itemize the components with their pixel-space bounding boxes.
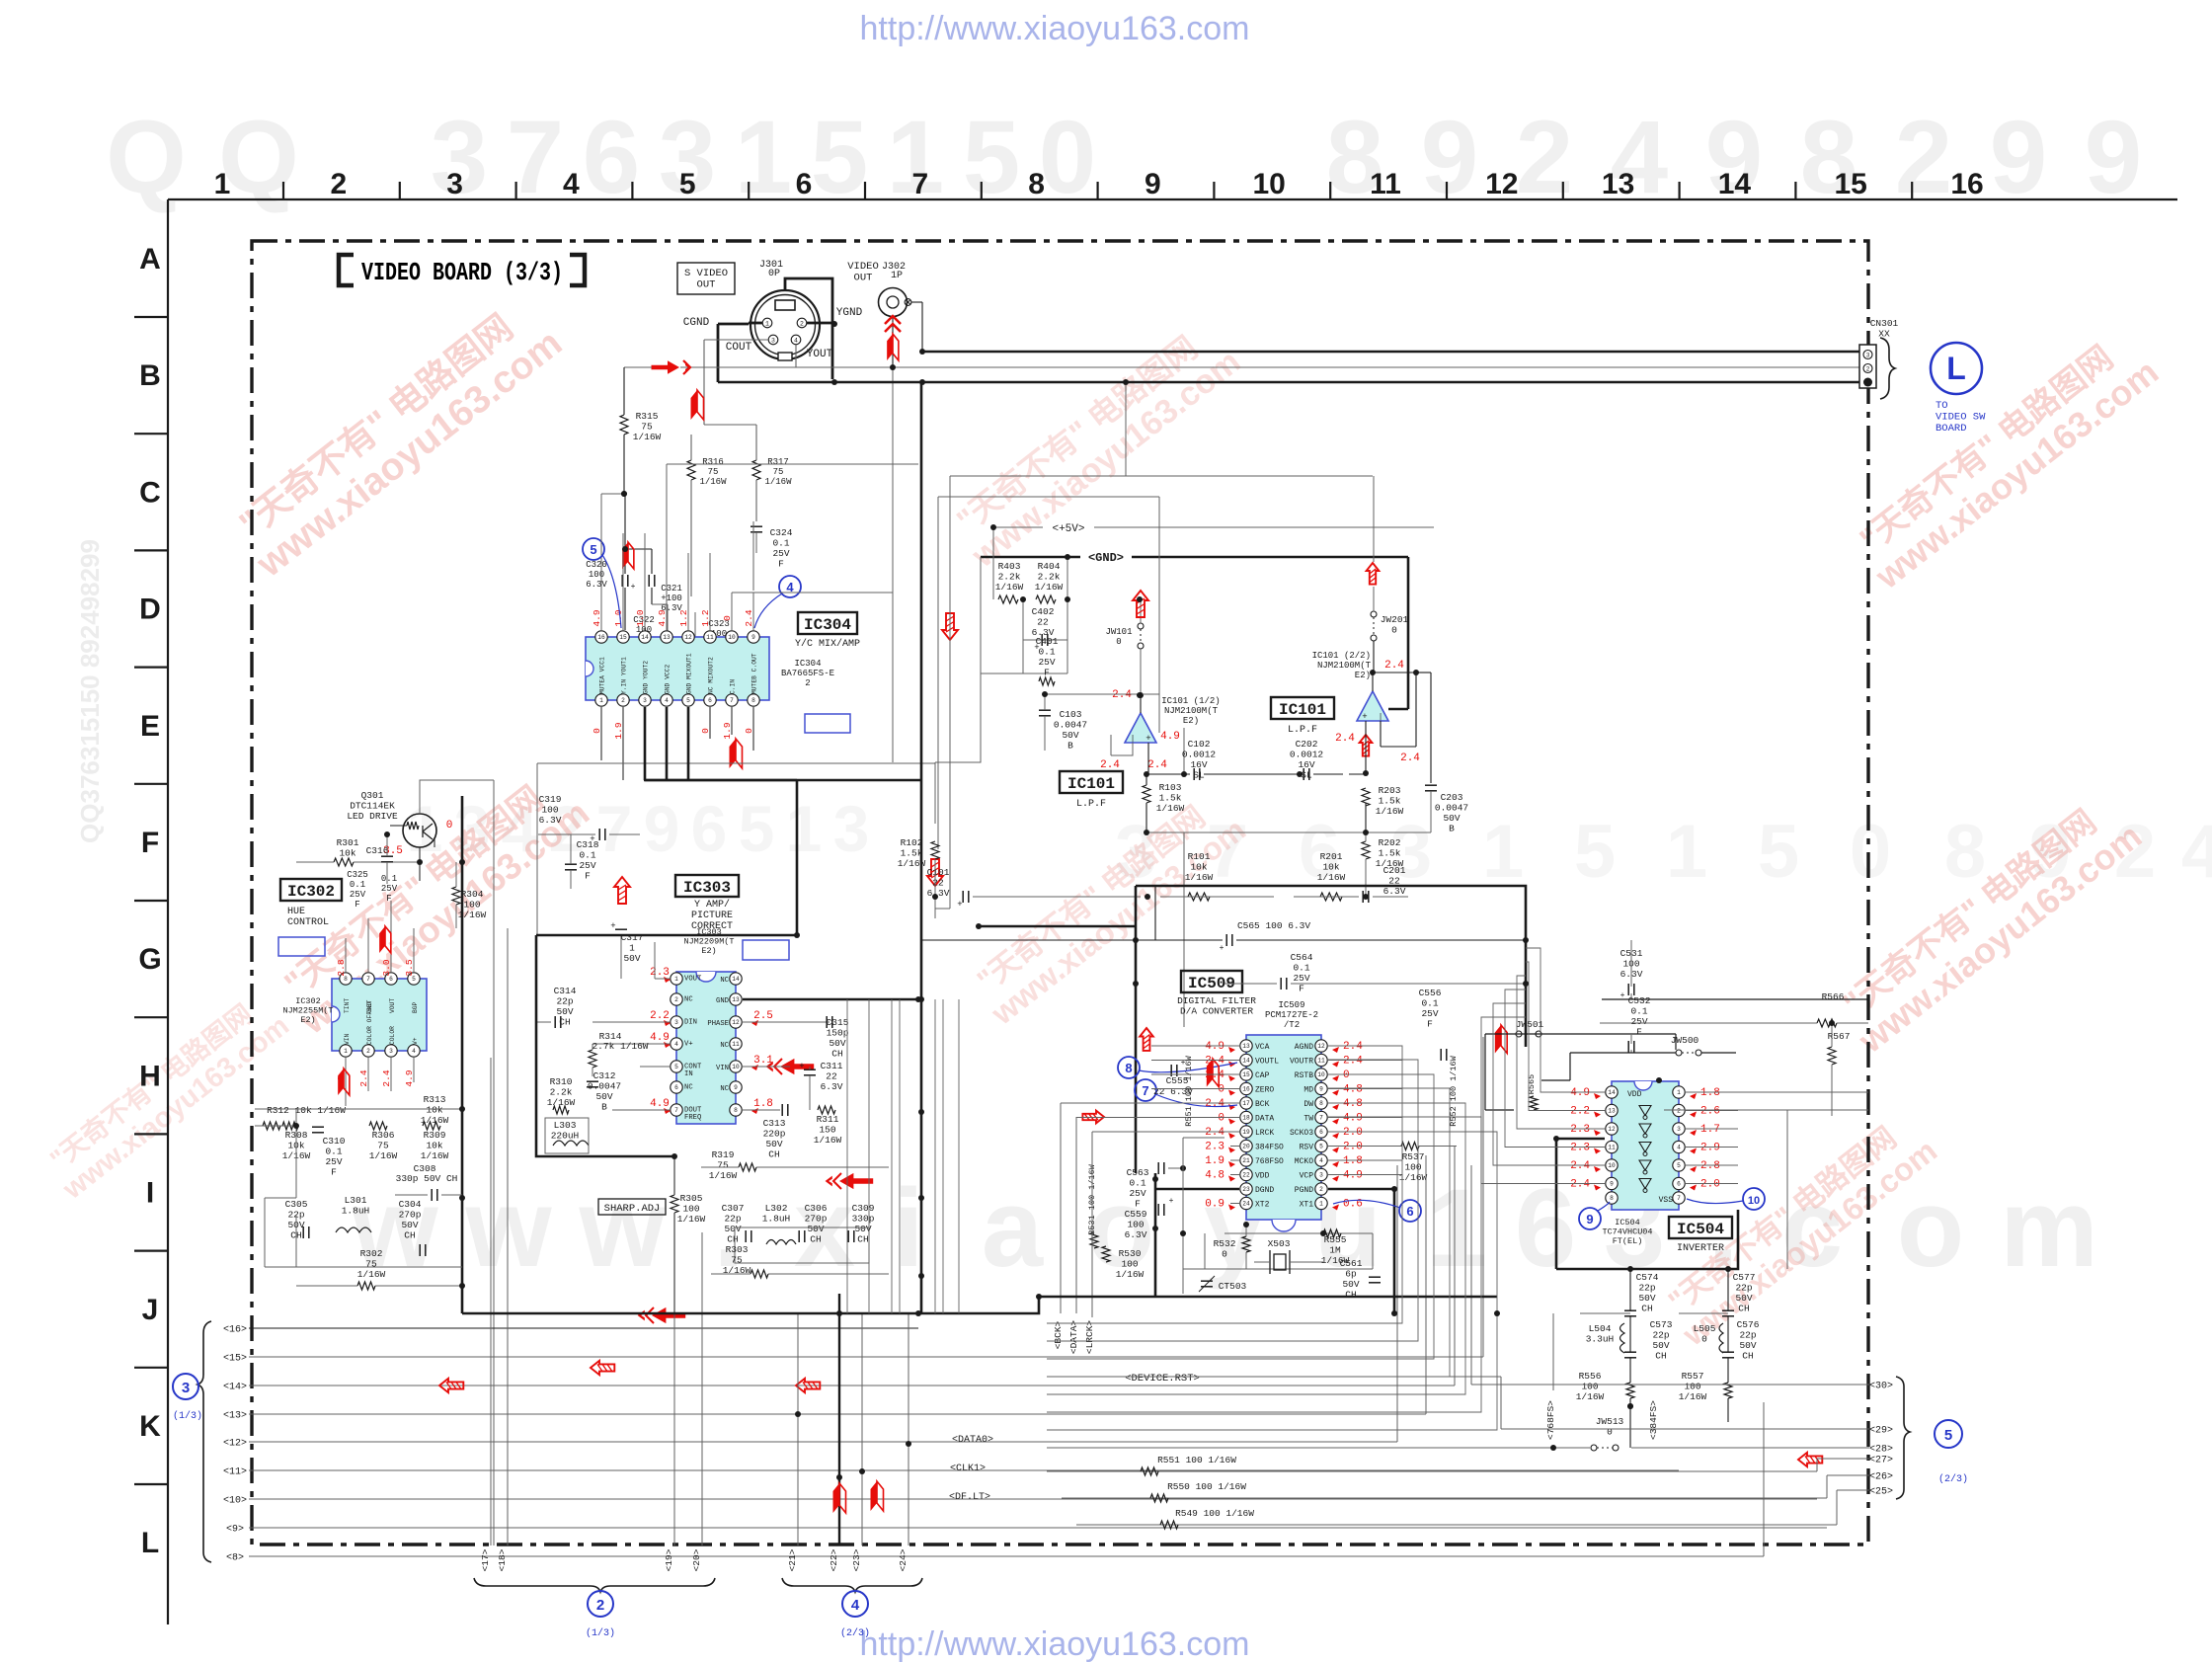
node 7 circle xyxy=(1135,1079,1156,1101)
svg-text:R566: R566 xyxy=(1822,991,1845,1002)
svg-text:C316: C316 xyxy=(366,845,389,856)
red chevrons under RCA xyxy=(885,316,901,324)
brace bus left xyxy=(197,1321,211,1562)
svg-text:<DATA>: <DATA> xyxy=(1068,1320,1079,1355)
wire long horizontal above IC303 xyxy=(537,762,935,764)
svg-text:1: 1 xyxy=(786,792,823,865)
svg-text:SHARP.ADJ: SHARP.ADJ xyxy=(604,1203,661,1215)
svg-text:4.9: 4.9 xyxy=(1570,1087,1590,1099)
red flag arrow mid column xyxy=(691,390,698,420)
svg-text:R551 100 1/16W: R551 100 1/16W xyxy=(1157,1455,1236,1465)
IC302 top pins 8-5 xyxy=(340,973,352,985)
red arrow video out right xyxy=(652,360,692,374)
svg-text:C3201006.3V: C3201006.3V xyxy=(586,560,607,590)
svg-text:9: 9 xyxy=(2085,100,2142,215)
svg-text:INVERTER: INVERTER xyxy=(1677,1243,1724,1254)
IC509 left pins 13-24 xyxy=(1240,1040,1252,1052)
svg-text:(1/3): (1/3) xyxy=(173,1410,202,1422)
svg-text:IN: IN xyxy=(684,1070,693,1078)
title VIDEO BOARD (3/3) xyxy=(339,255,354,285)
svg-text:IC101: IC101 xyxy=(1279,701,1326,719)
svg-text:RSTB: RSTB xyxy=(1295,1071,1313,1080)
svg-text:4.8: 4.8 xyxy=(1343,1098,1363,1110)
red arrow left bottom xyxy=(638,1307,686,1323)
svg-text:<+5V>: <+5V> xyxy=(1052,523,1084,535)
svg-text:NC: NC xyxy=(720,1085,729,1093)
svg-text:4: 4 xyxy=(674,1041,678,1048)
op-amp IC504 inverter package xyxy=(1612,1081,1679,1210)
svg-text:L.P.F: L.P.F xyxy=(1076,799,1106,810)
svg-text:11: 11 xyxy=(1608,1145,1616,1151)
svg-text:DW: DW xyxy=(1303,1100,1313,1109)
svg-text:3: 3 xyxy=(389,1048,393,1055)
svg-text:J: J xyxy=(142,1294,159,1326)
svg-text:R550 100 1/16W: R550 100 1/16W xyxy=(1167,1481,1246,1492)
wire Q301 box xyxy=(420,780,494,814)
svg-text:Y.IN YOUT1: Y.IN YOUT1 xyxy=(621,657,628,694)
red hollow arrow JW101 xyxy=(1133,591,1148,617)
svg-text:3.0: 3.0 xyxy=(381,959,392,976)
svg-text:MUTEB C.OUT: MUTEB C.OUT xyxy=(751,653,758,694)
svg-text:0: 0 xyxy=(722,615,733,621)
svg-text:VOUTL: VOUTL xyxy=(1255,1058,1279,1067)
label box IC101 first xyxy=(1060,771,1123,793)
svg-text:0: 0 xyxy=(446,820,453,831)
svg-text:C.IN: C.IN xyxy=(730,679,737,694)
svg-text:21: 21 xyxy=(1242,1157,1250,1164)
wire output filter frame xyxy=(735,1227,869,1263)
svg-text:<23>: <23> xyxy=(851,1548,862,1571)
red flag arrow IC302 pin6 xyxy=(379,926,385,953)
svg-text:1: 1 xyxy=(674,976,678,983)
jumper JW101 xyxy=(1138,623,1144,629)
svg-text:5: 5 xyxy=(1677,1162,1681,1169)
red flag arrow above IC509 right xyxy=(1495,1025,1501,1054)
svg-text:384FSO: 384FSO xyxy=(1255,1144,1284,1152)
svg-text:330p 50V CH: 330p 50V CH xyxy=(396,1173,458,1184)
wire op1 network xyxy=(1140,695,1142,713)
IC303 left pins 1-7 xyxy=(671,973,682,985)
svg-text:G: G xyxy=(138,943,161,976)
wire right bus lines xyxy=(1471,1384,1869,1386)
blue rect spare IC303 xyxy=(743,940,789,960)
svg-text:3: 3 xyxy=(182,1380,190,1396)
top ruler ticks xyxy=(282,182,284,199)
wire right mesh xyxy=(1485,999,1868,1110)
svg-text:DIN: DIN xyxy=(684,1019,697,1027)
wire video bus line1 thick xyxy=(922,351,1859,354)
IC304 bottom pins 1-8 xyxy=(595,694,607,706)
svg-text:IC302: IC302 xyxy=(287,883,335,901)
jumper JW201 xyxy=(1371,611,1377,617)
svg-text:1.0: 1.0 xyxy=(613,609,624,626)
svg-text:11: 11 xyxy=(1370,168,1401,200)
svg-text:1: 1 xyxy=(344,1048,348,1055)
svg-text:1.9: 1.9 xyxy=(613,722,624,739)
wire GND rail thick xyxy=(981,556,1080,559)
brace CN301 xyxy=(1880,338,1895,399)
svg-text:10: 10 xyxy=(1317,1071,1325,1078)
svg-text:0: 0 xyxy=(1850,810,1891,894)
svg-text:3: 3 xyxy=(674,1019,678,1026)
op-amp IC302 hue control package xyxy=(332,979,427,1051)
svg-text:8: 8 xyxy=(1125,1061,1132,1075)
svg-text:2.4: 2.4 xyxy=(1112,689,1132,701)
svg-text:7: 7 xyxy=(1142,1083,1148,1098)
svg-text:SCKO3: SCKO3 xyxy=(1290,1129,1313,1138)
svg-text:A: A xyxy=(139,243,161,276)
svg-text:1.7: 1.7 xyxy=(1700,1124,1720,1136)
svg-text:4: 4 xyxy=(412,1048,416,1055)
svg-text:2: 2 xyxy=(621,697,625,704)
node 3 circle xyxy=(173,1374,198,1399)
svg-text:VOUT: VOUT xyxy=(389,998,396,1013)
svg-text:3: 3 xyxy=(1866,353,1870,359)
svg-text:8: 8 xyxy=(1319,1100,1323,1107)
wire nested loops right of IC509 xyxy=(1047,1046,1402,1323)
svg-text:GND VCC2: GND VCC2 xyxy=(665,665,671,694)
trimmer CT503 xyxy=(1201,1280,1213,1282)
svg-text:2: 2 xyxy=(674,996,678,1003)
svg-text:5: 5 xyxy=(679,168,696,200)
svg-text:DATA: DATA xyxy=(1255,1115,1274,1124)
svg-text:10: 10 xyxy=(1608,1162,1616,1169)
svg-text:Q: Q xyxy=(106,100,187,215)
svg-text:2.4: 2.4 xyxy=(1570,1179,1590,1191)
svg-text:18: 18 xyxy=(1242,1115,1250,1122)
svg-text:GND: GND xyxy=(716,997,729,1005)
svg-text:R2031.5k1/16W: R2031.5k1/16W xyxy=(1376,785,1404,817)
wire lower left rails xyxy=(255,1125,296,1127)
op-amp IC101 1/2 xyxy=(1125,713,1156,743)
svg-text:+: + xyxy=(1220,944,1224,953)
resistor R102 xyxy=(931,841,939,859)
svg-text:12: 12 xyxy=(684,634,692,641)
svg-text:4: 4 xyxy=(563,168,580,200)
svg-text:VIN: VIN xyxy=(344,1033,351,1045)
svg-text:ZERO: ZERO xyxy=(1255,1086,1274,1095)
svg-text:2.5: 2.5 xyxy=(753,1010,773,1022)
svg-text:14: 14 xyxy=(1242,1058,1250,1065)
svg-text:8: 8 xyxy=(734,1107,738,1114)
resistor R202 xyxy=(1362,841,1370,859)
svg-text:i: i xyxy=(893,1166,923,1290)
svg-text:NC: NC xyxy=(720,1042,729,1050)
svg-text:TW: TW xyxy=(1303,1115,1313,1124)
label box IC101 second xyxy=(1271,697,1334,719)
svg-text:2.3: 2.3 xyxy=(1570,1124,1590,1136)
svg-text:<GND>: <GND> xyxy=(1088,551,1124,565)
svg-text:NC: NC xyxy=(684,996,693,1004)
blue rect spare IC302 xyxy=(278,937,325,956)
brace group4 xyxy=(782,1578,922,1592)
svg-text:BCK: BCK xyxy=(1255,1100,1270,1109)
svg-text:3: 3 xyxy=(771,338,775,345)
svg-text:3: 3 xyxy=(1319,1172,1323,1179)
svg-text:C565 100 6.3V: C565 100 6.3V xyxy=(1237,920,1310,931)
svg-text:CGND: CGND xyxy=(683,317,710,329)
svg-text:http://www.xiaoyu163.com: http://www.xiaoyu163.com xyxy=(860,1625,1250,1663)
svg-text:L3021.8uH: L3021.8uH xyxy=(762,1203,791,1225)
svg-text:10: 10 xyxy=(1748,1195,1760,1207)
svg-text:<10>: <10> xyxy=(223,1496,247,1507)
svg-text:IC304: IC304 xyxy=(804,616,851,634)
svg-text:R312 10k 1/16W: R312 10k 1/16W xyxy=(267,1105,346,1116)
svg-text:(2/3): (2/3) xyxy=(840,1627,870,1639)
svg-text:NC: NC xyxy=(720,977,729,985)
red flag arrows bottom exits xyxy=(833,1483,840,1513)
svg-text:+: + xyxy=(799,1062,804,1071)
svg-text:<384FS>: <384FS> xyxy=(1648,1400,1659,1440)
label box IC509 xyxy=(1181,971,1242,992)
svg-text:<25>: <25> xyxy=(1869,1487,1893,1498)
svg-text:15: 15 xyxy=(1835,168,1867,200)
svg-text:a: a xyxy=(982,1166,1044,1290)
wire J301 thick frame xyxy=(785,278,832,379)
svg-text:4.9: 4.9 xyxy=(650,1032,670,1044)
svg-text:2.4: 2.4 xyxy=(744,609,754,626)
node 6 circle xyxy=(1399,1200,1421,1222)
IC304 top pins 16-9 xyxy=(595,631,607,643)
red arrow left near R319 xyxy=(826,1173,874,1189)
svg-text:X503: X503 xyxy=(1268,1238,1291,1249)
wire long verticals centre xyxy=(846,999,848,1313)
svg-text:2.8: 2.8 xyxy=(1700,1160,1720,1172)
svg-text:2.2: 2.2 xyxy=(1570,1106,1590,1118)
svg-text:12: 12 xyxy=(1317,1043,1325,1050)
red hollow arrow under op2 plus input xyxy=(1360,735,1373,756)
svg-text:2.0: 2.0 xyxy=(1700,1179,1720,1191)
wire GND frame right xyxy=(1154,886,1156,940)
svg-text:2.7k 1/16W: 2.7k 1/16W xyxy=(592,1041,648,1052)
wire IC303 thick frame xyxy=(536,780,797,935)
svg-text:2.8: 2.8 xyxy=(336,959,347,976)
svg-text:1: 1 xyxy=(599,697,603,704)
svg-text:7: 7 xyxy=(911,168,928,200)
svg-text:23: 23 xyxy=(1242,1186,1250,1193)
svg-text:2.6: 2.6 xyxy=(1700,1106,1720,1118)
node 8 circle xyxy=(1118,1057,1140,1078)
svg-text:2: 2 xyxy=(1516,100,1573,215)
node L to video SW board xyxy=(1931,343,1982,394)
svg-text:<12>: <12> xyxy=(223,1439,247,1450)
svg-text:w: w xyxy=(578,1166,666,1290)
svg-text:4: 4 xyxy=(2181,810,2212,894)
red hollow arrow above C555 xyxy=(1140,1028,1153,1051)
svg-text:0.9: 0.9 xyxy=(1205,1199,1224,1211)
svg-text:0: 0 xyxy=(744,728,754,734)
svg-text:2: 2 xyxy=(1866,366,1870,373)
svg-text:<26>: <26> xyxy=(1869,1472,1893,1483)
svg-text:E: E xyxy=(140,710,160,743)
svg-text:1.8: 1.8 xyxy=(753,1098,773,1110)
svg-text:5: 5 xyxy=(590,542,596,557)
svg-text:<15>: <15> xyxy=(223,1354,247,1365)
svg-text:1.8: 1.8 xyxy=(1700,1087,1720,1099)
svg-text:<DATA0>: <DATA0> xyxy=(952,1435,993,1446)
svg-text:0: 0 xyxy=(700,728,711,734)
svg-text:5: 5 xyxy=(739,792,775,865)
svg-text:20: 20 xyxy=(1242,1144,1250,1150)
svg-text:7: 7 xyxy=(674,1107,678,1114)
svg-text:B: B xyxy=(139,359,161,392)
svg-text:<19>: <19> xyxy=(664,1548,674,1571)
svg-text:3: 3 xyxy=(643,697,647,704)
svg-text:CAP: CAP xyxy=(1255,1071,1270,1080)
svg-text:R565: R565 xyxy=(1527,1074,1537,1094)
svg-text:DIGITAL FILTERD/A CONVERTER: DIGITAL FILTERD/A CONVERTER xyxy=(1177,995,1256,1017)
red flag arrow under RCA xyxy=(887,334,893,360)
IC302 bottom pins 1-4 xyxy=(340,1045,352,1057)
svg-text:2: 2 xyxy=(596,1597,604,1614)
svg-text:13: 13 xyxy=(1602,168,1634,200)
svg-text:2: 2 xyxy=(1895,100,1952,215)
svg-text:4.8: 4.8 xyxy=(1205,1170,1224,1182)
svg-text:19: 19 xyxy=(1242,1129,1250,1136)
svg-text:5: 5 xyxy=(674,1064,678,1070)
svg-text:JW501: JW501 xyxy=(1516,1019,1544,1030)
svg-text:3: 3 xyxy=(1677,1126,1681,1133)
brace group2 xyxy=(474,1578,715,1592)
red hollow arrow above IC303 xyxy=(614,877,630,904)
svg-text:2: 2 xyxy=(366,1048,370,1055)
svg-text:<BCK>: <BCK> xyxy=(1053,1320,1064,1349)
svg-text:12: 12 xyxy=(1485,168,1518,200)
svg-text:+: + xyxy=(1169,1197,1174,1206)
svg-text:2.4: 2.4 xyxy=(1570,1160,1590,1172)
svg-text:+: + xyxy=(1362,712,1367,722)
svg-text:VOUTR: VOUTR xyxy=(1290,1058,1313,1067)
svg-text:2: 2 xyxy=(1677,1108,1681,1115)
svg-text:VDD: VDD xyxy=(1255,1172,1270,1181)
svg-text:15: 15 xyxy=(1242,1071,1250,1078)
svg-text:YOUT: YOUT xyxy=(807,349,833,360)
svg-text:14: 14 xyxy=(641,634,649,641)
svg-text:0P: 0P xyxy=(768,269,780,279)
svg-text:2.4: 2.4 xyxy=(1343,1041,1363,1053)
svg-text:L: L xyxy=(141,1527,159,1559)
svg-text:<17>: <17> xyxy=(480,1548,491,1571)
svg-text:3: 3 xyxy=(833,792,870,865)
svg-text:<16>: <16> xyxy=(223,1325,247,1336)
svg-text:2.4: 2.4 xyxy=(381,1069,392,1086)
svg-text:11: 11 xyxy=(732,1041,740,1048)
svg-text:10: 10 xyxy=(1253,168,1286,200)
IC509 right pins 12-1 xyxy=(1315,1040,1327,1052)
svg-text:4: 4 xyxy=(1319,1157,1323,1164)
svg-text:w: w xyxy=(464,1166,552,1290)
svg-text:2.3: 2.3 xyxy=(1205,1142,1224,1153)
wire filter links xyxy=(1629,1269,1631,1310)
svg-text:7: 7 xyxy=(730,697,734,704)
svg-text:1.0: 1.0 xyxy=(635,609,646,626)
svg-text:F: F xyxy=(141,827,159,859)
svg-text:768FSO: 768FSO xyxy=(1255,1157,1284,1166)
label box IC504 xyxy=(1669,1217,1732,1238)
svg-text:4: 4 xyxy=(851,1597,860,1614)
svg-text:2: 2 xyxy=(1319,1186,1323,1193)
svg-text:7: 7 xyxy=(1677,1195,1681,1202)
red flag arrow under pin7 xyxy=(730,739,737,768)
svg-text:<DF.LT>: <DF.LT> xyxy=(949,1492,990,1503)
svg-text:6: 6 xyxy=(796,168,813,200)
svg-text:MD: MD xyxy=(1303,1086,1313,1095)
svg-text:5: 5 xyxy=(1944,1427,1952,1444)
node 5 circle xyxy=(583,538,604,560)
op-amp IC509 DAC package xyxy=(1246,1035,1321,1220)
svg-text:1: 1 xyxy=(1319,1201,1323,1208)
wire left stub to R315 xyxy=(624,366,652,368)
svg-text:V+: V+ xyxy=(412,1037,419,1045)
svg-text:24: 24 xyxy=(1242,1201,1250,1208)
resistor R103 xyxy=(1143,785,1150,803)
svg-text:2.4: 2.4 xyxy=(358,1069,369,1086)
op-amp IC304 Y/C MIX/AMP package xyxy=(586,637,769,700)
svg-text:JW500: JW500 xyxy=(1671,1035,1699,1046)
wire bottom exits left group xyxy=(490,1058,492,1545)
node 4 circle xyxy=(779,576,801,597)
svg-text:6: 6 xyxy=(1319,1129,1323,1136)
svg-text:3: 3 xyxy=(446,168,463,200)
svg-text:IC504: IC504 xyxy=(1677,1221,1724,1238)
svg-text:6: 6 xyxy=(1677,1181,1681,1188)
svg-text:14: 14 xyxy=(1608,1089,1616,1096)
svg-text:2: 2 xyxy=(330,168,347,200)
wire IC504 feed loops xyxy=(1526,948,1594,1092)
resistor R316 xyxy=(687,460,695,480)
node 5 circle right xyxy=(1935,1420,1962,1448)
node 4 circle xyxy=(842,1591,868,1617)
svg-text:PHASE: PHASE xyxy=(707,1020,729,1028)
svg-text:2.4: 2.4 xyxy=(1400,752,1420,764)
label box IC303 xyxy=(675,875,739,897)
svg-text:8: 8 xyxy=(751,697,755,704)
svg-text:7: 7 xyxy=(1319,1115,1323,1122)
svg-text:2.4: 2.4 xyxy=(1335,733,1355,745)
watermark pink diagonal stamps xyxy=(222,288,570,586)
svg-text:LRCK: LRCK xyxy=(1255,1129,1274,1138)
svg-text:http://www.xiaoyu163.com: http://www.xiaoyu163.com xyxy=(860,10,1250,47)
svg-text:I: I xyxy=(146,1177,154,1210)
svg-text:L.P.F: L.P.F xyxy=(1288,725,1317,736)
svg-text:<768FS>: <768FS> xyxy=(1545,1400,1556,1440)
svg-text:12: 12 xyxy=(732,1019,740,1026)
red flag arrow IC509 left xyxy=(1207,1059,1213,1087)
svg-text:7: 7 xyxy=(596,792,633,865)
IC504 pin stubs xyxy=(1594,1091,1605,1093)
svg-text:10: 10 xyxy=(732,1064,740,1070)
svg-text:0: 0 xyxy=(1218,1113,1224,1125)
svg-text:VIN: VIN xyxy=(716,1065,729,1072)
svg-text:16: 16 xyxy=(1242,1086,1250,1093)
svg-text:5: 5 xyxy=(963,100,1020,215)
svg-text:<24>: <24> xyxy=(898,1548,908,1571)
svg-text:2.4: 2.4 xyxy=(1147,759,1167,771)
svg-text:NC MIXOUT2: NC MIXOUT2 xyxy=(708,657,715,694)
wire video bus line3 thick xyxy=(718,381,1859,384)
svg-text:D: D xyxy=(139,594,161,626)
wire xtal frame xyxy=(1183,1138,1373,1294)
svg-text:+: + xyxy=(631,583,636,592)
label box IC302 xyxy=(280,879,342,901)
wire DGND PGND thick xyxy=(1155,1188,1239,1191)
svg-text:2.4: 2.4 xyxy=(1100,759,1120,771)
svg-text:<CLK1>: <CLK1> xyxy=(950,1464,986,1474)
wire power box frame xyxy=(981,527,1067,673)
svg-text:L5043.3uH: L5043.3uH xyxy=(1586,1323,1615,1345)
label box IC304 xyxy=(798,612,857,634)
wire IC509 pin stubs xyxy=(1230,1045,1239,1047)
